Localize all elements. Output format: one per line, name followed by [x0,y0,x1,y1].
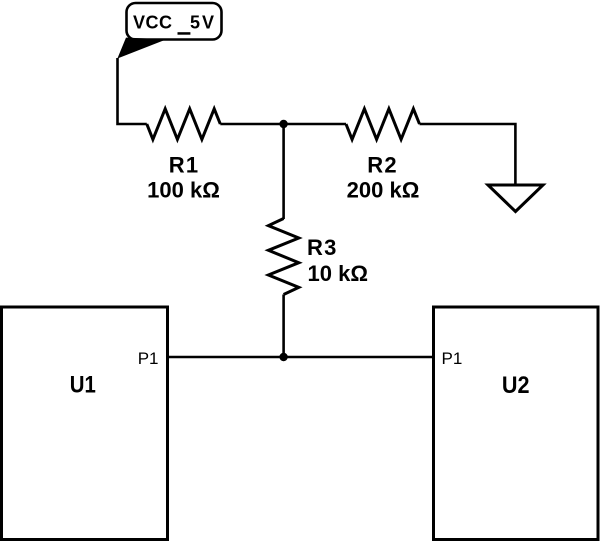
wire R2 to ground [420,124,516,185]
wire R1 to node A [220,123,283,126]
wire node A to R3 [282,124,285,219]
resistor R1 [147,109,221,140]
svg-text:U1: U1 [70,371,96,398]
svg-text:R2: R2 [367,153,398,178]
svg-text:P1: P1 [138,349,159,368]
svg-text:U2: U2 [502,371,530,398]
node B junction [279,353,287,361]
svg-text:VCC: VCC [133,12,173,32]
resistor R2 [346,109,420,140]
svg-text:R1: R1 [169,153,200,178]
ground [488,185,543,212]
node A junction [279,120,287,128]
resistor R3 [268,219,298,295]
svg-text:R3: R3 [307,235,338,260]
svg-text:200 kΩ: 200 kΩ [347,178,420,203]
power flag VCC_5V [117,3,221,59]
wire U1.P1 to U2.P1 [168,356,434,359]
svg-text:P1: P1 [442,349,463,368]
wire VCC_5V to R1 [118,58,147,124]
svg-text:5V: 5V [190,12,216,32]
IC U1 [2,307,168,540]
svg-text:10 kΩ: 10 kΩ [308,261,368,286]
wire node A to R2 [284,123,346,126]
U2 label [502,371,530,398]
IC U2 [434,307,599,540]
svg-text:100 kΩ: 100 kΩ [147,178,220,203]
wire R3 to node B [282,295,285,358]
U1 label [70,371,96,398]
